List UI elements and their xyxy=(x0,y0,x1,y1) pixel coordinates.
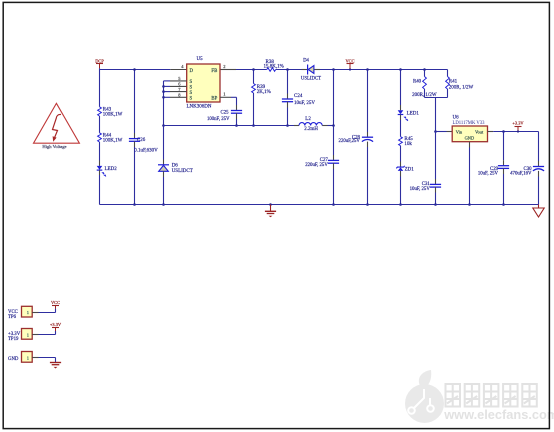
U6 Vout lead xyxy=(488,131,494,133)
diode D4 USLIDCT xyxy=(301,59,321,82)
wire C30 bottom xyxy=(538,171,540,205)
U5 pin lead S3 xyxy=(164,91,187,93)
resistor R45 xyxy=(399,137,414,147)
svg-text:220uF,25V: 220uF,25V xyxy=(339,139,361,144)
U6 GND lead xyxy=(469,142,471,148)
svg-text:470uF,16V: 470uF,16V xyxy=(510,171,532,176)
svg-text:200R, 1/2W: 200R, 1/2W xyxy=(449,86,474,91)
junction C31 bottom rail xyxy=(434,203,437,206)
U5 pin number 8 xyxy=(178,93,181,98)
wire C30 column top xyxy=(538,132,540,167)
svg-text:TP6: TP6 xyxy=(8,315,17,320)
junction C28 bottom rail xyxy=(366,203,369,206)
wire switch rail xyxy=(164,125,295,127)
wire top rail DCP to U5 pin D xyxy=(100,69,171,71)
svg-text:DCP: DCP xyxy=(95,58,104,63)
wire C29 top xyxy=(503,132,505,166)
wire VCC column upper xyxy=(333,70,335,126)
svg-text:10uF, 25V: 10uF, 25V xyxy=(410,187,431,192)
junction S bus switch rail xyxy=(162,124,165,127)
wire BP to C25 xyxy=(236,97,238,110)
U5 pin number 5 xyxy=(178,76,181,81)
svg-text:+3.3V: +3.3V xyxy=(50,322,62,327)
U5 pin name D xyxy=(190,69,194,74)
power port VCC testpoint xyxy=(51,300,60,309)
svg-text:LD1117MK V33: LD1117MK V33 xyxy=(453,121,486,126)
svg-text:Vin: Vin xyxy=(456,129,463,134)
svg-text:100nF, 25V: 100nF, 25V xyxy=(207,117,230,122)
svg-text:VCC: VCC xyxy=(51,300,60,305)
wire L2 lead left xyxy=(294,125,299,127)
wire bottom rail xyxy=(100,204,539,206)
wire R40 bottom xyxy=(424,89,426,98)
svg-text:High Voltage: High Voltage xyxy=(42,144,66,149)
svg-text:10uF, 25V: 10uF, 25V xyxy=(478,171,499,176)
wire R41 bottom xyxy=(447,89,449,98)
svg-text:1: 1 xyxy=(27,355,29,360)
svg-text:+3.3V: +3.3V xyxy=(512,121,524,126)
svg-text:1: 1 xyxy=(27,310,29,315)
svg-text:0.1uF,630V: 0.1uF,630V xyxy=(134,148,158,153)
svg-text:10uF, 25V: 10uF, 25V xyxy=(294,101,315,106)
svg-text:R40: R40 xyxy=(413,79,422,84)
ground earth testpoint xyxy=(50,363,61,369)
U5 pin lead BP xyxy=(220,96,237,98)
wire R39 bottom xyxy=(253,93,255,126)
junction VCC column top rail xyxy=(332,68,335,71)
U5 pin number 2 xyxy=(223,64,225,69)
wire C25 bottom xyxy=(236,113,238,125)
wire R39 top xyxy=(253,70,255,84)
wire R40 top xyxy=(424,70,426,77)
U5 pin name S2 xyxy=(190,86,193,91)
regulator U6 LD1117MK body xyxy=(452,116,487,142)
U5 pin number 4 xyxy=(181,64,184,69)
test point GND box xyxy=(22,352,33,363)
U5 pin lead S2 xyxy=(164,85,187,87)
wire Vin column upper xyxy=(435,98,437,132)
power port +3.3V xyxy=(512,121,524,133)
wire DCP column upper xyxy=(99,68,101,107)
wire U6 Vin lead xyxy=(447,131,453,133)
wire C29 bottom xyxy=(503,168,505,204)
wire LED1 to R45 xyxy=(400,115,402,137)
svg-text:Vout: Vout xyxy=(475,130,484,135)
LED D LED2 xyxy=(97,166,118,177)
junction C26 top rail xyxy=(133,68,136,71)
junction C29 bottom rail xyxy=(502,203,505,206)
wire C24 bottom xyxy=(287,102,289,126)
svg-text:C26: C26 xyxy=(137,138,146,143)
LED D LED1 xyxy=(398,110,420,121)
U5 pin number 7 xyxy=(178,87,181,92)
resistor R40 xyxy=(412,77,437,98)
junction U6 GND bottom rail xyxy=(468,203,471,206)
svg-text:S: S xyxy=(190,91,193,96)
U5 pin lead S1 xyxy=(164,80,187,82)
high voltage warning symbol xyxy=(34,103,80,149)
wire R45 to ZD1 xyxy=(400,146,402,167)
wire C26 bottom xyxy=(134,141,136,204)
junction L2 output xyxy=(332,124,335,127)
svg-text:2: 2 xyxy=(223,64,225,69)
svg-text:220uF, 25V: 220uF, 25V xyxy=(305,163,328,168)
wire LED1 top xyxy=(400,70,402,111)
TP19 pin lead xyxy=(32,334,38,336)
wire C24 top xyxy=(287,70,289,100)
junction C29 output xyxy=(502,130,505,133)
svg-text:TP19: TP19 xyxy=(8,337,19,342)
junction LED1 column bottom rail xyxy=(399,203,402,206)
U5 pin name BP xyxy=(211,97,217,102)
wire D4 lead right xyxy=(314,69,320,71)
wire C28 top xyxy=(367,70,369,138)
GND pin lead xyxy=(32,357,38,359)
diode D6 USLIDCT xyxy=(158,163,193,174)
resistor R38 xyxy=(264,60,284,72)
ground earth center xyxy=(265,203,276,217)
U5 pin number 1 xyxy=(223,92,225,97)
power port DCP xyxy=(95,58,104,68)
svg-text:R41: R41 xyxy=(449,79,458,84)
svg-text:U6: U6 xyxy=(453,116,460,121)
wire S-pin bus xyxy=(163,81,165,126)
wire C31 bottom xyxy=(435,187,437,204)
wire C28 bottom xyxy=(367,142,369,205)
wire L2 to VCC column xyxy=(328,125,334,127)
inductor L2 xyxy=(299,117,322,132)
svg-text:USLIDCT: USLIDCT xyxy=(301,76,321,81)
wire +3.3V rail xyxy=(493,131,538,133)
junction C28 top rail xyxy=(366,68,369,71)
junction R39 top rail xyxy=(252,68,255,71)
U5 pin number 6 xyxy=(178,82,181,87)
resistor R41 xyxy=(446,77,474,91)
capacitor C27 xyxy=(305,158,339,168)
svg-text:LNK306DN: LNK306DN xyxy=(187,105,212,110)
wire Vin wire xyxy=(436,131,447,133)
svg-text:www.elecfans.com: www.elecfans.com xyxy=(443,407,554,422)
test point GND label xyxy=(8,357,19,362)
wire C26 top xyxy=(134,70,136,139)
zener diode ZD1 xyxy=(396,166,414,173)
op-amp U5 LNK306DN body xyxy=(187,57,221,109)
capacitor C29 xyxy=(478,166,509,177)
svg-text:S: S xyxy=(190,97,193,102)
capacitor C26 xyxy=(129,138,158,154)
svg-text:GND: GND xyxy=(465,135,475,140)
svg-text:100K,1W: 100K,1W xyxy=(103,138,123,143)
wire L2 lead right xyxy=(322,125,327,127)
svg-text:LED1: LED1 xyxy=(407,111,420,116)
U5 pin lead S4 xyxy=(164,96,187,98)
capacitor C24 xyxy=(282,94,315,106)
svg-text:2K,1%: 2K,1% xyxy=(257,90,271,95)
wire U5 pin2 lead FB xyxy=(220,69,236,71)
U6 pin name Vout xyxy=(475,130,484,135)
svg-text:C24: C24 xyxy=(294,94,303,99)
wire Vin column to C31 xyxy=(435,132,437,185)
svg-text:D: D xyxy=(190,69,194,74)
capacitor C28 xyxy=(339,135,374,144)
svg-text:D4: D4 xyxy=(303,59,309,64)
svg-text:1: 1 xyxy=(223,92,225,97)
junction C24 top rail xyxy=(286,68,289,71)
test point TP6 label xyxy=(8,310,18,320)
capacitor C31 xyxy=(410,182,441,192)
wire U5 pin4 lead D xyxy=(170,69,186,71)
wire R41 top xyxy=(447,70,449,77)
resistor R39 xyxy=(252,84,271,96)
svg-text:BP: BP xyxy=(211,97,217,102)
U6 pin name GND xyxy=(465,135,475,140)
U5 pin name S1 xyxy=(190,80,193,85)
wire TP19 to +3.3V xyxy=(39,331,56,335)
svg-text:2.2mH: 2.2mH xyxy=(304,127,318,132)
svg-text:U5: U5 xyxy=(197,57,204,62)
junction C26 bottom rail xyxy=(133,203,136,206)
resistor R43 xyxy=(98,107,123,118)
svg-text:USLIDCT: USLIDCT xyxy=(172,169,193,174)
capacitor C30 xyxy=(510,167,544,177)
junction C27 bottom rail xyxy=(332,203,335,206)
test point TP6 box xyxy=(22,306,33,317)
test point TP19 label xyxy=(8,332,21,342)
wire ZD1 to bottom rail xyxy=(400,171,402,205)
junction C24 switch rail xyxy=(286,124,289,127)
svg-text:10k: 10k xyxy=(404,142,412,147)
power port +3.3V testpoint xyxy=(50,322,62,331)
wire GND tp to ground xyxy=(39,358,56,363)
junction S bus pins xyxy=(162,85,165,99)
wire D4 lead left xyxy=(302,69,308,71)
wire VCC column to C27 xyxy=(333,126,335,161)
junction Vin node xyxy=(434,130,437,133)
wire R44 to LED2 xyxy=(99,142,101,166)
ground open-triangle right xyxy=(533,205,544,218)
U5 pin name S4 xyxy=(190,97,193,102)
junction R40 top rail xyxy=(423,68,426,71)
svg-text:VCC: VCC xyxy=(345,59,354,64)
svg-text:S: S xyxy=(190,80,193,85)
capacitor C25 xyxy=(207,110,242,121)
U5 pin name FB xyxy=(211,69,217,74)
junction LED1 top rail xyxy=(399,68,402,71)
wire D4 to R41 xyxy=(320,69,448,71)
wire R38 to C24 node xyxy=(276,69,302,71)
wire FB node to R38 xyxy=(236,69,267,71)
power port VCC xyxy=(345,59,354,71)
svg-text:1: 1 xyxy=(27,332,29,337)
junction C25 switch rail xyxy=(235,124,238,127)
wire U6 GND to bottom rail xyxy=(469,148,471,205)
junction D6 bottom rail xyxy=(162,203,165,206)
TP6 pin lead xyxy=(32,312,38,314)
test point TP19 box xyxy=(22,329,33,340)
svg-text:ZD1: ZD1 xyxy=(405,168,415,173)
svg-text:15.8K,1%: 15.8K,1% xyxy=(264,65,284,70)
svg-text:D6: D6 xyxy=(172,163,179,168)
svg-text:LED2: LED2 xyxy=(105,167,118,172)
resistor R44 xyxy=(98,133,123,144)
svg-text:FB: FB xyxy=(211,69,217,74)
wire R40-R41 join xyxy=(425,97,448,99)
junction R39 switch rail xyxy=(252,124,255,127)
wire S bus to D6 xyxy=(163,126,165,165)
wire D6 to bottom rail xyxy=(163,171,165,204)
wire C27 bottom xyxy=(333,163,335,204)
wire R43 to R44 xyxy=(99,116,101,133)
wire LED2 to bottom rail xyxy=(99,170,101,204)
U5 pin name S3 xyxy=(190,91,193,96)
svg-text:100K,1W: 100K,1W xyxy=(103,112,123,117)
svg-text:C25: C25 xyxy=(221,110,230,115)
svg-text:GND: GND xyxy=(8,357,19,362)
svg-text:L2: L2 xyxy=(305,117,311,122)
wire TP6 to VCC xyxy=(39,309,56,313)
U6 pin name Vin xyxy=(456,129,463,134)
